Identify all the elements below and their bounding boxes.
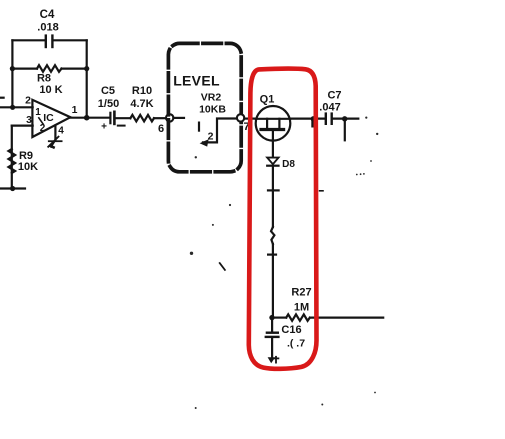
svg-text:+: + (101, 122, 107, 133)
svg-text:C5: C5 (101, 85, 115, 97)
tick mark on wire (268, 189, 279, 191)
stray specks (190, 117, 379, 410)
svg-text:IC: IC (43, 112, 54, 124)
wire top feedback right segment (53, 39, 86, 41)
wire right vertical of feedback loop (86, 40, 88, 117)
svg-text:2: 2 (40, 123, 46, 134)
ground arrow at pin4 (48, 137, 61, 148)
resistor R27 (275, 287, 312, 321)
svg-text:C7: C7 (327, 90, 341, 102)
wire C5 to R10 (116, 117, 131, 119)
wire top feedback left segment (12, 39, 44, 41)
svg-text:R8: R8 (37, 73, 51, 85)
transistor Q1 (256, 94, 291, 141)
wire R27 to right (310, 317, 383, 319)
red highlight rounded box (249, 69, 317, 369)
svg-text:.047: .047 (319, 102, 340, 114)
svg-text:.018: .018 (37, 22, 58, 34)
svg-text:10KB: 10KB (199, 104, 226, 116)
capacitor C5 (98, 85, 125, 133)
wire kink wobble (271, 227, 274, 244)
pin label 1 of VR2 (198, 123, 200, 131)
wire op-amp pin4 (54, 126, 56, 141)
svg-text:C16: C16 (281, 324, 301, 336)
tick mark on wire (268, 254, 276, 256)
svg-text:C4: C4 (40, 9, 55, 21)
wire stub below junction (311, 119, 313, 126)
capacitor C7 (319, 90, 341, 124)
node 7 (237, 114, 250, 133)
svg-text:1: 1 (72, 104, 78, 116)
junction at R8 right (84, 66, 89, 71)
junction pin2 wire (10, 105, 15, 110)
ground below C16 (268, 357, 279, 363)
svg-text:1: 1 (35, 107, 41, 118)
junction R27/C16 (269, 315, 274, 320)
wire D8 to junction, with kinks (272, 166, 274, 227)
arrowhead VR2 wiper pin 2 (200, 139, 209, 146)
node 6 (158, 114, 173, 135)
svg-text:10 K: 10 K (39, 84, 62, 96)
svg-text:R10: R10 (132, 85, 152, 97)
wire stub at left edge (0, 97, 4, 99)
svg-text:.( .7: .( .7 (287, 338, 305, 350)
svg-text:D8: D8 (282, 159, 295, 170)
svg-text:6: 6 (158, 123, 164, 135)
wire R10 to node 6 (154, 117, 166, 119)
diode D8 (267, 158, 295, 170)
svg-text:4.7K: 4.7K (130, 98, 153, 110)
stray diagonal mark (220, 263, 225, 270)
capacitor C16 (266, 318, 305, 358)
wire left vertical of feedback loop (11, 40, 13, 107)
dashed LEVEL box (168, 43, 241, 171)
svg-text:3: 3 (26, 114, 32, 126)
capacitor C4 (37, 9, 58, 47)
junction right of C7 (342, 116, 347, 121)
wire C7 to right (333, 117, 359, 119)
svg-text:4: 4 (58, 126, 64, 137)
svg-text:LEVEL: LEVEL (173, 73, 220, 89)
wire VR2 wiper path (203, 119, 237, 143)
resistor R9 (9, 149, 39, 173)
wire bottom left (0, 187, 25, 189)
stray dash near red box (320, 190, 323, 192)
wire down from C7 junction (344, 121, 346, 141)
wire lower segment (272, 244, 274, 318)
svg-text:R27: R27 (291, 287, 311, 299)
svg-text:10K: 10K (18, 161, 38, 173)
svg-text:2: 2 (208, 131, 214, 143)
junction output/feedback (84, 115, 90, 121)
wire node 7 to Q1 (244, 117, 256, 119)
svg-text:2: 2 (25, 95, 31, 107)
junction bottom left (10, 186, 15, 191)
resistor R10 (130, 85, 154, 121)
junction at R8 left (10, 66, 15, 71)
junction left of C7 (311, 116, 316, 121)
wire op-amp pin3 input (12, 124, 33, 126)
potentiometer VR2 labels (199, 92, 226, 116)
wire left vertical to R9 (11, 126, 13, 189)
svg-text:Q1: Q1 (260, 94, 275, 106)
wire op-amp output (70, 117, 109, 119)
wire Q1 source down (272, 141, 274, 158)
svg-text:1/50: 1/50 (98, 98, 119, 110)
svg-text:1M: 1M (294, 302, 309, 314)
wire stub from node 6 (173, 117, 184, 119)
wire op-amp pin2 input (0, 106, 33, 108)
svg-text:VR2: VR2 (201, 92, 222, 104)
resistor R8 (12, 65, 86, 96)
wire Q1 to C7 (290, 117, 325, 119)
op-amp U 1/2 IC (25, 95, 78, 138)
